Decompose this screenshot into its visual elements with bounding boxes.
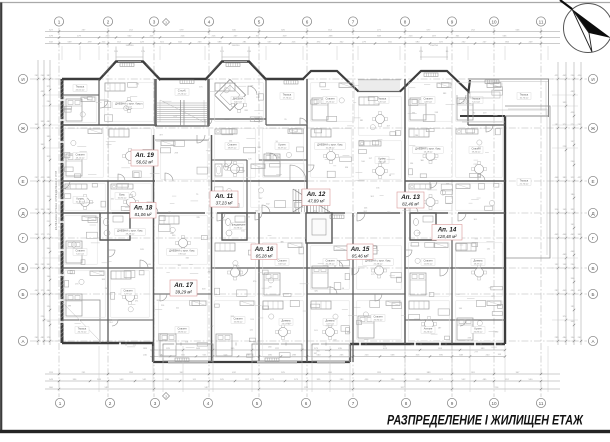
radiators	[120, 63, 499, 362]
svg-text:Бокс: Бокс	[119, 193, 125, 197]
grid vertical axis lines	[59, 28, 541, 397]
svg-text:Спалня: Спалня	[277, 259, 287, 263]
svg-text:Ап. 19: Ап. 19	[134, 152, 154, 159]
svg-text:Тераса: Тераса	[520, 93, 529, 97]
internal wall col8 full	[404, 79, 406, 344]
internal wall x153 full	[153, 135, 155, 362]
bay window 2 outline	[205, 62, 267, 81]
terrace top-right rail right	[548, 79, 550, 117]
svg-text:Ап. 13: Ап. 13	[400, 194, 420, 201]
apartment label Ап. 17	[170, 280, 197, 296]
north arrow tail tick	[560, 0, 572, 9]
svg-text:10,38 м2: 10,38 м2	[326, 148, 336, 150]
svg-text:И: И	[591, 77, 594, 82]
dimension chain bottom line 3	[45, 372, 560, 375]
svg-text:11,95 м2: 11,95 м2	[424, 264, 433, 266]
apartment label Ап. 13	[397, 192, 424, 208]
svg-text:11: 11	[539, 401, 544, 406]
svg-text:21,38 м2: 21,38 м2	[374, 264, 384, 266]
svg-text:8,43 м2: 8,43 м2	[234, 102, 242, 104]
extension lines below building	[42, 46, 578, 392]
dimension chain right line 4	[578, 62, 583, 345]
svg-text:4: 4	[208, 19, 211, 24]
svg-text:9,49 м2: 9,49 м2	[278, 264, 286, 266]
svg-text:Тераса: Тераса	[378, 97, 387, 101]
bathroom core 2 walls	[222, 213, 247, 240]
svg-text:28,49 м2: 28,49 м2	[126, 234, 136, 236]
dimension chain right line 2	[563, 62, 568, 345]
internal wall y320 left	[62, 319, 153, 321]
north arrow open blade	[572, 9, 592, 52]
svg-text:РАЗПРЕДЕЛЕНИЕ I ЖИЛИЩЕН ЕТАЖ: РАЗПРЕДЕЛЕНИЕ I ЖИЛИЩЕН ЕТАЖ	[387, 413, 584, 428]
internal wall row below terrace top-left	[62, 94, 99, 96]
outer wall bottom right section	[350, 343, 505, 345]
svg-text:З: З	[165, 394, 167, 398]
svg-text:З: З	[165, 20, 167, 24]
internal wall y294 stair strip	[153, 293, 212, 295]
internal wall y117 terrace bottom right	[460, 115, 505, 117]
svg-text:10: 10	[491, 19, 497, 24]
svg-text:Дневна: Дневна	[474, 259, 483, 263]
svg-text:Ап. 16: Ап. 16	[254, 246, 274, 253]
apartment label Ап. 14	[432, 225, 462, 241]
stair core bottom wall	[155, 125, 209, 127]
svg-text:5,20 м2: 5,20 м2	[76, 254, 84, 256]
svg-text:2: 2	[107, 19, 110, 24]
svg-text:9: 9	[451, 401, 454, 406]
svg-text:Спалня: Спалня	[227, 143, 237, 147]
svg-text:Дневна: Дневна	[282, 319, 291, 323]
svg-text:7,94 м2: 7,94 м2	[178, 254, 186, 256]
svg-text:Е: Е	[591, 179, 594, 184]
svg-text:26,83 м2: 26,83 м2	[474, 332, 484, 334]
svg-text:6: 6	[305, 401, 308, 406]
svg-text:19,87 м2: 19,87 м2	[228, 148, 238, 150]
svg-text:Спалня: Спалня	[233, 317, 243, 321]
svg-text:17,25 м2: 17,25 м2	[326, 102, 336, 104]
stair core right wall	[207, 79, 210, 126]
outer wall step at col 7	[349, 344, 351, 362]
internal wall y119 mid-left	[209, 118, 266, 120]
svg-text:7: 7	[352, 401, 355, 406]
svg-text:5,78 м2: 5,78 м2	[124, 294, 132, 296]
svg-text:5: 5	[258, 19, 261, 24]
svg-text:3: 3	[153, 19, 156, 24]
svg-text:ДНЕВНА: ДНЕВНА	[233, 97, 244, 101]
grid bubbles right column letters	[588, 74, 597, 345]
svg-text:17,76 м2: 17,76 м2	[283, 98, 293, 100]
grid bubbles top row 1-11	[54, 17, 545, 26]
svg-text:47,89 м²: 47,89 м²	[308, 199, 325, 204]
svg-text:Тераса: Тераса	[76, 85, 85, 89]
svg-text:ДНЕВНА с кухн. бокс: ДНЕВНА с кухн. бокс	[317, 143, 343, 147]
svg-text:Тераса: Тераса	[520, 179, 529, 183]
bay window 1 outline	[99, 62, 161, 81]
svg-text:Б: Б	[21, 292, 24, 297]
svg-text:19,40 м2: 19,40 м2	[472, 152, 482, 154]
svg-text:16,37 м2: 16,37 м2	[278, 148, 288, 150]
svg-text:Спалня: Спалня	[325, 97, 335, 101]
svg-text:11: 11	[539, 19, 544, 24]
svg-text:7: 7	[352, 19, 355, 24]
north arrow circle	[564, 4, 610, 53]
svg-text:Спалня: Спалня	[423, 97, 433, 101]
terrace deck hatch top	[358, 80, 401, 91]
svg-text:23,57 м2: 23,57 м2	[282, 324, 292, 326]
svg-text:Ап. 12: Ап. 12	[306, 191, 326, 198]
bay window 2 window mullions	[209, 62, 263, 76]
terrace bottom left diagonal	[62, 302, 100, 341]
grid horizontal axis lines	[30, 79, 587, 341]
interior tiny dimension marks	[68, 84, 502, 356]
svg-text:Ап. 18: Ап. 18	[133, 205, 153, 212]
terrace top-right rail top	[468, 78, 549, 80]
svg-text:Дневна: Дневна	[326, 319, 335, 323]
small dimension marks above bay windows	[114, 45, 449, 60]
svg-text:Спалня: Спалня	[75, 153, 85, 157]
svg-text:21,70 м2: 21,70 м2	[520, 184, 530, 186]
svg-text:3: 3	[154, 401, 157, 406]
dimension chain left line 1	[35, 60, 40, 345]
internal wall y160 mid	[212, 159, 247, 161]
internal wall x468 top	[467, 91, 469, 125]
outer wall top segment B	[159, 78, 206, 80]
dimension chain bottom line 1	[143, 348, 506, 351]
svg-text:10,70 м2: 10,70 м2	[520, 98, 530, 100]
apartment label Ап. 19	[131, 150, 158, 166]
internal wall x99 top	[98, 79, 100, 125]
svg-text:18,37 м2: 18,37 м2	[474, 264, 484, 266]
apartment label Ап. 16	[251, 244, 277, 260]
svg-text:5,53 м2: 5,53 м2	[378, 102, 386, 104]
svg-text:Тераса: Тераса	[283, 93, 292, 97]
svg-text:15,95 м2: 15,95 м2	[234, 322, 244, 324]
dimension chain top line 1	[45, 29, 560, 32]
svg-text:Спалня: Спалня	[325, 259, 335, 263]
svg-text:22,51 м2: 22,51 м2	[76, 90, 86, 92]
svg-text:8: 8	[405, 401, 408, 406]
svg-text:10: 10	[491, 401, 497, 406]
svg-text:1: 1	[58, 19, 61, 24]
terrace right outline	[505, 106, 550, 258]
room name labels	[73, 85, 531, 334]
svg-text:20,98 м2: 20,98 м2	[234, 228, 244, 230]
svg-text:ДНЕВНА с кухн. бокс: ДНЕВНА с кухн. бокс	[117, 229, 143, 233]
dimension chain left line 3	[47, 60, 52, 345]
north arrow filled blade	[572, 9, 610, 38]
svg-text:65,28 м²: 65,28 м²	[256, 254, 273, 259]
svg-text:ДНЕВНА с кухн. бокс: ДНЕВНА с кухн. бокс	[115, 102, 141, 106]
door swing arcs	[62, 86, 493, 326]
svg-text:Тераса: Тераса	[78, 327, 87, 331]
internal wall row E left	[62, 180, 155, 182]
furniture layer	[65, 83, 501, 356]
outer wall top segment C	[265, 78, 304, 80]
exterior wall opening ticks	[61, 99, 502, 346]
page bottom border bar	[0, 430, 610, 433]
room inner plaster outlines	[65, 83, 502, 357]
svg-text:Стълб.: Стълб.	[178, 89, 187, 93]
svg-text:8: 8	[404, 19, 407, 24]
internal wall row E right	[405, 180, 505, 182]
stair core left wall	[154, 79, 157, 126]
bay window 1 window mullions	[103, 62, 157, 76]
internal wall col7 lower	[352, 213, 354, 362]
svg-text:20,39 м2: 20,39 м2	[326, 264, 336, 266]
dimension chain bottom line 5	[45, 387, 560, 390]
grid bubbles left column letters	[18, 74, 27, 345]
terrace bottom left outline	[62, 300, 100, 343]
svg-text:150/250: 150/250	[232, 45, 241, 47]
apartment label Ап. 12	[302, 189, 330, 206]
internal wall col6 full	[306, 79, 308, 362]
dimension chain right line 1	[555, 62, 560, 345]
svg-text:37,23 м²: 37,23 м²	[216, 201, 233, 206]
internal wall x452 lower	[451, 240, 453, 344]
svg-text:56,62 м²: 56,62 м²	[136, 160, 153, 165]
internal wall y125 mid	[266, 124, 307, 126]
internal wall y160 mid2	[259, 159, 307, 161]
svg-text:81,06 м²: 81,06 м²	[135, 212, 152, 217]
elevator cab	[312, 219, 326, 235]
dimension chain bottom line 2	[143, 354, 506, 357]
svg-text:И: И	[21, 77, 24, 82]
svg-text:Б: Б	[591, 292, 594, 297]
bathroom fixtures cores	[104, 216, 434, 236]
svg-text:20,26 м2: 20,26 м2	[424, 332, 434, 334]
internal wall row V left	[62, 267, 153, 269]
balcony 1 bottom	[163, 344, 213, 361]
svg-text:18,12 м2: 18,12 м2	[76, 158, 86, 160]
svg-text:5: 5	[256, 401, 259, 406]
closet and cabinet clutter	[65, 83, 503, 358]
internal wall y294 mid right	[307, 293, 405, 295]
terrace top-right detail	[462, 92, 546, 122]
svg-text:150/250: 150/250	[126, 45, 135, 47]
svg-text:27,26 м2: 27,26 м2	[178, 94, 188, 96]
bay window 3 outline	[400, 71, 470, 92]
svg-text:3,19 м2: 3,19 м2	[326, 324, 334, 326]
svg-text:Тераса: Тераса	[472, 97, 481, 101]
outer wall left party wall	[61, 79, 64, 343]
dimension chain right line 3	[571, 62, 576, 345]
outer wall top segment A	[62, 78, 100, 80]
apartment label Ап. 15	[347, 244, 373, 260]
svg-text:4: 4	[207, 401, 210, 406]
svg-text:Спалня: Спалня	[75, 249, 85, 253]
svg-text:ДНЕВНА с кухн. бокс: ДНЕВНА с кухн. бокс	[169, 249, 195, 253]
svg-text:КАЛКАННА СТЕНА ОПРЕДЕЛЕНА С РУ: КАЛКАННА СТЕНА ОПРЕДЕЛЕНА С РУП	[54, 170, 58, 230]
internal wall x212 full	[211, 135, 213, 362]
balcony 3 bottom	[312, 344, 350, 361]
svg-text:26,72 м2: 26,72 м2	[78, 332, 88, 334]
internal wall col2 lower	[107, 181, 109, 343]
svg-text:Спалня: Спалня	[177, 327, 187, 331]
outer wall bottom middle section	[153, 361, 350, 363]
balcony 2 bottom	[252, 344, 302, 361]
svg-text:39,29 м²: 39,29 м²	[175, 290, 192, 295]
svg-text:10,82 м2: 10,82 м2	[118, 198, 128, 200]
internal wall row V mid	[212, 267, 350, 269]
svg-text:В: В	[21, 266, 24, 271]
svg-text:25,90 м2: 25,90 м2	[374, 320, 384, 322]
internal wall y320 right	[405, 319, 505, 321]
svg-text:Спалня: Спалня	[123, 289, 133, 293]
svg-text:Спалня: Спалня	[423, 259, 433, 263]
internal wall col5 lower	[258, 213, 260, 362]
svg-text:150/250: 150/250	[430, 45, 439, 47]
bathroom core 1 walls	[100, 213, 130, 240]
svg-text:18,80 м2: 18,80 м2	[178, 332, 188, 334]
window marks bottom middle	[168, 361, 345, 363]
bathroom core 3 walls	[410, 213, 436, 240]
apartment label Ап. 18	[130, 203, 156, 219]
svg-text:6: 6	[306, 19, 309, 24]
dimension chain left line 2	[41, 60, 46, 345]
page top border line	[0, 2, 610, 4]
terrace right inner rail	[508, 109, 547, 255]
rotated square table bay room	[214, 79, 245, 110]
svg-text:82,46 м²: 82,46 м²	[402, 202, 419, 207]
internal wall x247	[246, 160, 248, 240]
internal wall row V right	[405, 267, 505, 269]
party wall hatch	[61, 80, 64, 339]
internal wall y125 left	[62, 124, 157, 126]
svg-text:Кухня: Кухня	[475, 327, 483, 331]
svg-text:Ап. 15: Ап. 15	[350, 246, 370, 253]
svg-text:65,46 м²: 65,46 м²	[352, 254, 369, 259]
outer wall bottom left section	[62, 342, 153, 344]
svg-text:128,48 м²: 128,48 м²	[437, 234, 457, 239]
grid diamond bubble 3-prim bottom	[163, 393, 170, 400]
svg-text:9: 9	[451, 19, 454, 24]
elevator shaft	[306, 213, 332, 243]
outer wall right main	[504, 116, 506, 344]
stair flight 2 hatch	[293, 189, 330, 212]
internal wall row D main band	[62, 212, 505, 214]
terrace deck edge top	[358, 91, 401, 93]
stair treads	[157, 100, 207, 126]
internal wall row E mid	[212, 180, 307, 182]
svg-text:Ап. 11: Ап. 11	[214, 193, 234, 200]
svg-text:Спалня: Спалня	[373, 315, 383, 319]
bay corner segment 6-7	[303, 71, 359, 92]
svg-text:Ап. 17: Ап. 17	[173, 282, 193, 289]
internal wall y125 right of bay3	[468, 124, 505, 126]
internal wall y240 bathroom band	[100, 239, 436, 241]
svg-text:Кухня: Кухня	[279, 143, 287, 147]
svg-text:2: 2	[109, 401, 112, 406]
internal wall x266 top	[265, 79, 267, 125]
dimension chain top line 3	[45, 41, 560, 44]
dimension chain top line 2	[45, 35, 560, 38]
svg-text:Е: Е	[21, 179, 24, 184]
grid diamond bubble 3-prim top	[163, 19, 170, 26]
dimension chain bottom line 4	[45, 379, 560, 382]
svg-text:13,19 м2: 13,19 м2	[424, 152, 434, 154]
svg-text:1: 1	[59, 401, 62, 406]
svg-text:4,39 м2: 4,39 м2	[424, 102, 432, 104]
svg-text:5,14 м2: 5,14 м2	[472, 102, 480, 104]
svg-text:Ателие: Ателие	[424, 327, 433, 331]
outer wall step left of middle	[152, 343, 154, 362]
building walls group	[61, 62, 550, 364]
grid bubbles bottom row 1-11	[55, 398, 545, 407]
svg-text:Ап. 14: Ап. 14	[437, 227, 457, 234]
page left border line	[0, 3, 2, 432]
svg-text:В: В	[591, 266, 594, 271]
svg-text:Преддверие: Преддверие	[231, 223, 246, 227]
apartment label Ап. 11	[210, 191, 238, 207]
